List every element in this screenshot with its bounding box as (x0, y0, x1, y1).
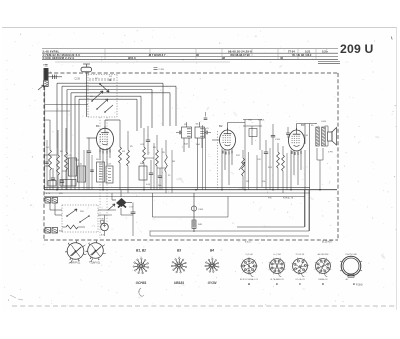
svg-text:5 PR: 5 PR (328, 152, 333, 154)
svg-text:C4.B: C4.B (321, 121, 326, 123)
grid capacitor C11 (87, 151, 91, 152)
svg-text:U: U (365, 42, 374, 56)
wire: AVC bus (44, 186, 310, 188)
tube B3 UL21 envelope (289, 130, 305, 151)
wire: C30 leads (104, 215, 106, 223)
switch linkage dotted (99, 117, 101, 238)
svg-text:4- (7.0M: 4- (7.0M (273, 254, 281, 256)
dropper resistor R48 (192, 220, 196, 229)
svg-text:2M: 2M (246, 181, 249, 183)
svg-text:5.2|+: 5.2|+ (322, 49, 328, 53)
wire: C2B lead down (86, 73, 88, 118)
electrolytic C184 (191, 206, 196, 211)
valve-base diagram B3 base (293, 259, 308, 274)
wire: S9 bottoms (183, 138, 185, 152)
svg-text:96: 96 (196, 53, 199, 57)
wire: S10 top stub (199, 122, 201, 127)
svg-text:E: E (276, 282, 278, 286)
cap C169 (271, 136, 275, 137)
svg-text:DB/MA.OV: DB/MA.OV (318, 278, 328, 281)
resistor R5 (127, 150, 130, 166)
wire: B1 grid left (87, 137, 97, 139)
svg-text:C169: C169 (275, 139, 281, 141)
svg-text:B3: B3 (177, 249, 181, 253)
mains switch dotted box (62, 204, 98, 206)
output transformer T1 primary (316, 127, 319, 145)
cathode bypass box 2 (106, 166, 113, 183)
wire: IF2 down leads (244, 126, 246, 190)
stray marks bottom left (10, 295, 23, 300)
wire: B2 grid left (212, 139, 220, 141)
svg-text:R.Pb|C.7b: R.Pb|C.7b (283, 198, 294, 200)
svg-text:CVMTV DMK: CVMTV DMK (345, 254, 358, 256)
svg-text:1M: 1M (172, 161, 175, 163)
cap C189 above dashes (154, 68, 158, 70)
dashed chassis enclosure left (43, 86, 45, 240)
resistor R13 (277, 152, 280, 168)
fuse box (101, 221, 104, 224)
B3 pin ticks (292, 151, 301, 155)
tube B1 UCH21 grids (100, 135, 108, 142)
svg-text:459 98-98.47 98: 459 98-98.47 98 (230, 53, 250, 57)
aerial terminal A1 (44, 69, 48, 80)
coil S5 (65, 152, 68, 170)
decoupling box C16 (139, 166, 147, 180)
svg-text:B 3: B 3 (101, 235, 104, 237)
switch SK2 contact (67, 209, 77, 216)
svg-text:P.3(A): P.3(A) (356, 284, 363, 287)
wire bus B (62, 85, 176, 87)
svg-text:2:48 6VR6L: 2:48 6VR6L (43, 49, 60, 53)
svg-text:C.189: C.189 (159, 69, 165, 71)
wire: ps joins (98, 209, 116, 211)
wire: x67 down (66, 150, 68, 190)
dashed chassis enclosure bottom (44, 239, 338, 241)
mains terminal block N (52, 198, 58, 204)
wire: bottom rail (150, 235, 309, 237)
wire: extra vertical x287 (286, 153, 288, 190)
trimmer C8 (60, 181, 64, 182)
tube B2 UF21 anode (224, 133, 232, 135)
wire: x79 down (78, 165, 80, 190)
voltage selector arrow (108, 204, 115, 210)
tuning gang C10 box (78, 166, 86, 182)
wire: dropper chain (193, 193, 195, 232)
wire: transformer to speaker (325, 125, 328, 127)
ballast resistor R21 (66, 225, 78, 229)
C10 plates (79, 168, 84, 180)
svg-text:B4: B4 (210, 249, 214, 253)
wire: link y155 (44, 154, 57, 156)
svg-text:B.Kxxx: B.Kxxx (245, 242, 251, 244)
wire: extra vertical x172 (171, 150, 173, 193)
dotted AGC line (217, 131, 219, 190)
component box on bus a (48, 181, 56, 187)
trimmer cap left of S9 (179, 131, 180, 135)
IF transformer coil S10 (195, 127, 205, 138)
wire: HT feed vertical right B (309, 124, 311, 232)
waveband switch SK1 dotted frame (88, 74, 117, 76)
svg-text:S4B: S4B (140, 163, 145, 165)
loudspeaker (328, 132, 333, 141)
cap C51 (204, 118, 208, 119)
trimmer C50 (206, 131, 207, 135)
wire: mains leads (49, 203, 51, 210)
svg-text:B1: B1 (96, 124, 100, 128)
aerial cap mark (45, 65, 48, 66)
wire: tie y168 (157, 167, 166, 169)
dashed chassis enclosure top (48, 72, 338, 74)
wire: left rail (44, 86, 46, 190)
tube B2 UF21 grids (223, 136, 231, 143)
wire: extra vertical x84 (83, 150, 85, 190)
svg-text:CO+JA.OV: CO+JA.OV (295, 278, 305, 281)
lower terminal pair (45, 228, 51, 234)
IF2 coil top lines (243, 119, 262, 121)
svg-text:P.N: P.N (268, 198, 272, 200)
svg-text:B1, B2: B1, B2 (136, 249, 146, 253)
svg-text:9(01 6: 9(01 6 (128, 56, 136, 60)
series cap plates (53, 75, 57, 79)
wire: extra vertical x154 (153, 143, 155, 190)
tube B1 UCH21 envelope (97, 128, 114, 150)
svg-text:46: 46 (280, 56, 283, 60)
switch SK1 contact b (97, 99, 108, 109)
wire bus C (67, 89, 152, 91)
tube B2 UF21 cathode (225, 145, 231, 146)
table cell separators (105, 49, 316, 59)
valve pin-connection diagram UY21 connections (213, 265, 217, 268)
wire: HT feed vertical right A (304, 150, 306, 227)
component box on bus b (60, 180, 76, 187)
valve-base diagram B4 base (316, 259, 331, 274)
svg-text:B1 B UL TA-MA.0 OV: B1 B UL TA-MA.0 OV (240, 278, 259, 281)
wire: nested return bus upper (237, 226, 305, 228)
wire: extra vertical x162 (161, 148, 163, 190)
screen resistor R3 (119, 147, 122, 163)
junction dots on HT bus (56, 189, 321, 191)
wire: x57 bus down to HT (56, 148, 58, 190)
svg-text:C2.B: C2.B (75, 78, 81, 81)
svg-text:5.21: 5.21 (305, 49, 311, 53)
svg-text:05. UE 98 | 96.2: 05. UE 98 | 96.2 (292, 53, 312, 57)
coupling cap C14 (146, 140, 150, 141)
svg-text:77 04: 77 04 (288, 49, 295, 53)
wire: B2 anode up (227, 123, 229, 131)
resistor R8 (156, 150, 159, 166)
rotary switch diagram SK1 wafer B (88, 243, 104, 259)
wire: osc feed y104.5 (45, 104, 88, 106)
mains terminal block L (45, 198, 51, 204)
switch SK1 contact studs (91, 79, 111, 113)
wire: extra vertical x47 (46, 140, 48, 190)
B1 pin ticks (100, 150, 110, 154)
wire: vertical x205.5 (205, 128, 207, 190)
wire: x75 down (74, 160, 76, 190)
wire bus F (wide, to detector) (71, 92, 170, 94)
svg-text:A4 DB12M4: A4 DB12M4 (318, 253, 330, 256)
svg-text:209: 209 (340, 42, 361, 56)
svg-text:98: 98 (222, 56, 225, 60)
switch studs (66, 215, 90, 223)
AVC resistor R7 (143, 147, 146, 163)
stray pencil curl (139, 288, 144, 296)
faint dotted left margin (6, 60, 8, 230)
switch SK2 contact b (80, 216, 89, 222)
tie lines mid-left (62, 170, 67, 172)
B2 pin ticks (223, 151, 232, 155)
svg-text:S5.1: S5.1 (196, 124, 201, 126)
wire: main HT bus (44, 189, 337, 191)
rotary switch diagram SK1 wafer A (67, 243, 84, 260)
tube B3 UL21 anode (293, 133, 301, 135)
plug lugs (340, 261, 362, 271)
dashed chassis enclosure right (337, 73, 339, 240)
wire: extra vertical x270 (269, 148, 271, 190)
svg-text:-M 7 BU26.6 7: -M 7 BU26.6 7 (148, 53, 166, 57)
switch SK1 contact d (105, 105, 113, 112)
svg-text:PU DLTN: PU DLTN (296, 254, 305, 256)
wire: link y120 (45, 119, 50, 121)
resistor R9 (165, 155, 168, 172)
svg-text:UCH81: UCH81 (136, 281, 147, 285)
resistor R14 (282, 155, 285, 171)
tube B3 UL21 cathode (294, 145, 300, 146)
resistor R1 (57, 155, 60, 175)
smoothing cap C19 (131, 212, 136, 213)
tube B3 UL21 grids (292, 136, 300, 143)
valve pin-connection diagram UCH21 connections (142, 266, 147, 267)
svg-text:V (2.0M: V (2.0M (245, 254, 252, 256)
metal rectifier G1 (116, 198, 127, 207)
electrolytic C30 (101, 223, 109, 231)
tube B2 UF21 envelope (220, 130, 236, 150)
wire: feed y111 (45, 110, 70, 112)
wire: nested return bus lower (150, 230, 309, 232)
parts table rules (42, 48, 338, 50)
wire: chassis bus 2 (44, 192, 310, 194)
C9 plates (70, 160, 75, 174)
wire: B1 pins down (99, 148, 101, 161)
wire S5 leads (65, 128, 67, 152)
wire: B3 anode to transformer (296, 124, 298, 131)
speck near top right (391, 37, 392, 40)
wire: extra vertical x87 (86, 150, 88, 190)
padder C7 (51, 178, 55, 179)
aerial arrow (38, 85, 44, 90)
volume pot R12 (242, 158, 245, 176)
wire: S9 top stub (186, 122, 188, 127)
cap C17a (149, 173, 153, 174)
wire: extra vertical x92 (91, 155, 93, 190)
wire above S4 (49, 120, 51, 150)
svg-text:E: E (353, 282, 355, 286)
svg-text:D: D (322, 282, 324, 286)
valve-base diagram B2 base (270, 259, 285, 274)
wire bus D (75, 95, 141, 97)
svg-text:C13.B: C13.B (258, 120, 265, 122)
wire R1 leads (57, 130, 59, 155)
wire: x71 down (70, 152, 72, 190)
wire: C2B top lead (86, 64, 88, 67)
svg-text:B2: B2 (219, 124, 223, 128)
wire bus A (top) (57, 82, 163, 84)
wire: HT step line (152, 193, 154, 217)
IF transformer coil S9 (182, 127, 192, 138)
svg-text:98:68.20-24.29-6: 98:68.20-24.29-6 (228, 49, 252, 53)
output transformer T1 secondary (322, 127, 326, 145)
wire: vertical x202.5 (202, 125, 204, 190)
tube B1 UCH21 cathode (102, 144, 108, 145)
valve-base diagram B1 base (242, 259, 257, 274)
transformer bottom leads (316, 148, 318, 160)
arrow on pot (239, 162, 245, 170)
earth terminal block (44, 81, 49, 87)
tube B1 UCH21 anode (101, 132, 109, 134)
coil S4 (49, 150, 52, 170)
svg-text:C184: C184 (198, 209, 204, 211)
grid stopper cap C21 (286, 133, 290, 134)
wire: rectifier riser (120, 190, 122, 197)
mains plug outline (341, 256, 361, 276)
svg-text:B.10.427: B.10.427 (322, 240, 333, 244)
tuning gang C9 box (69, 158, 77, 176)
wire bus E (79, 98, 137, 100)
switch SK1 contact c (100, 84, 109, 92)
wire: aerial coupling (48, 76, 62, 78)
switch contact tick row (90, 78, 114, 81)
valve pin-connection diagram UBL21 connections (180, 266, 185, 267)
switch SK1 contact a (92, 91, 103, 101)
wire: B1 anode up (104, 120, 106, 128)
svg-text:2:9UE 9EDU2M 2-4V-9: 2:9UE 9EDU2M 2-4V-9 (43, 56, 75, 60)
wire: C19 to bottom rail (132, 227, 134, 236)
wire: S10 bottoms (197, 138, 199, 190)
wire: B3 pins down (290, 150, 292, 190)
aerial filter capacitor C2B body (81, 67, 92, 72)
sheet bottom edge (12, 305, 396, 307)
wire: extra vertical x257 (256, 155, 258, 190)
svg-text:UB181: UB181 (174, 281, 184, 285)
wire: B2 pins down (221, 149, 223, 190)
svg-text:UY1N: UY1N (208, 281, 217, 285)
wire: bus 3 (44, 196, 305, 198)
wire: tie y158 (144, 157, 154, 159)
svg-text:B: B (248, 282, 250, 286)
svg-text:UL TA-MA.B.OV: UL TA-MA.B.OV (270, 278, 284, 281)
cap C18a (158, 176, 162, 177)
wire: extra vertical x248.5 (248, 152, 250, 190)
wire: extra vertical x262 (261, 150, 263, 187)
wire: rectifier leads (112, 199, 116, 201)
coupling cap C20 (264, 152, 268, 153)
wire: x62 down (61, 156, 63, 171)
cap C12 (90, 170, 94, 171)
svg-text:JUMY DL: JUMY DL (91, 263, 102, 265)
svg-text:GRYP DL: GRYP DL (71, 263, 82, 265)
cathode network box (97, 162, 105, 182)
diode load box (249, 129, 257, 137)
cap C6 (45, 162, 49, 163)
